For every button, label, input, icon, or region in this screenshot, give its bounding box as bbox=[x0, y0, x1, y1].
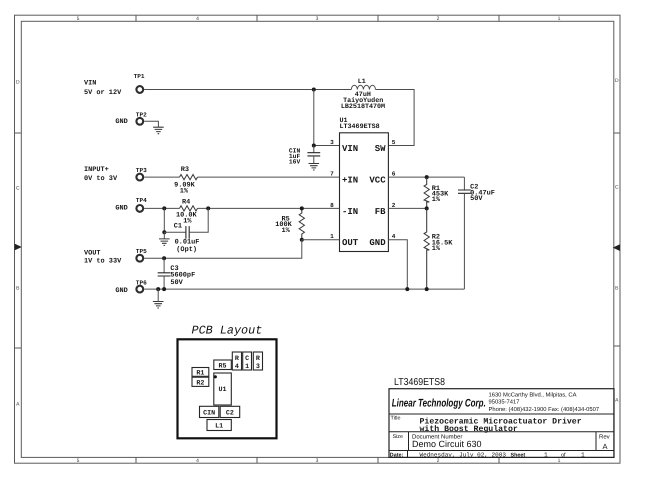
border row letters left bbox=[16, 80, 20, 408]
svg-text:1%: 1% bbox=[180, 187, 189, 195]
svg-text:R2: R2 bbox=[196, 380, 204, 388]
label VOUT bbox=[84, 249, 122, 265]
svg-text:R: R bbox=[235, 355, 239, 363]
title block title text bbox=[420, 417, 582, 434]
svg-text:4: 4 bbox=[235, 363, 239, 371]
svg-text:with Boost Regulator: with Boost Regulator bbox=[420, 425, 518, 434]
node FB junction bbox=[425, 206, 429, 210]
svg-text:1: 1 bbox=[245, 363, 249, 371]
wire GND rail bbox=[144, 288, 464, 290]
testpoint TP2 bbox=[136, 111, 147, 124]
svg-text:INPUT+: INPUT+ bbox=[84, 166, 109, 174]
resistor R4 bbox=[176, 198, 198, 225]
svg-text:GND: GND bbox=[369, 238, 386, 248]
svg-text:GND: GND bbox=[115, 118, 127, 126]
border mid arrow right bbox=[613, 244, 620, 251]
svg-text:0V to 3V: 0V to 3V bbox=[84, 175, 118, 183]
testpoint TP3 bbox=[136, 167, 147, 181]
svg-text:Linear Technology Corp.: Linear Technology Corp. bbox=[392, 397, 486, 409]
label INPUT+ bbox=[84, 166, 118, 183]
border column numbers bottom bbox=[77, 458, 561, 464]
svg-text:Demo Circuit 630: Demo Circuit 630 bbox=[412, 439, 482, 449]
node R5 top junction bbox=[300, 206, 304, 210]
svg-text:4: 4 bbox=[392, 233, 396, 240]
node C1 bottom junction bbox=[162, 230, 166, 234]
border mid arrow left bbox=[15, 244, 22, 251]
svg-text:1%: 1% bbox=[432, 245, 441, 253]
wire C1 branch left drop bbox=[163, 208, 165, 232]
svg-text:R3: R3 bbox=[181, 166, 189, 174]
node C3 bottom junction bbox=[162, 287, 166, 291]
svg-text:4: 4 bbox=[196, 16, 199, 22]
svg-text:LT3469ETS8: LT3469ETS8 bbox=[394, 377, 445, 388]
capacitor C2 bbox=[458, 177, 495, 289]
node VIN junction bbox=[312, 88, 316, 92]
ground CIN bbox=[309, 164, 320, 171]
wire TP4 to R4 bbox=[144, 207, 179, 209]
wire GND pin drop bbox=[388, 240, 407, 289]
svg-text:Wednesday, July 02, 2003: Wednesday, July 02, 2003 bbox=[420, 452, 507, 459]
svg-text:C: C bbox=[16, 186, 20, 192]
svg-text:D: D bbox=[16, 80, 20, 86]
svg-text:2: 2 bbox=[437, 458, 440, 464]
svg-text:GND: GND bbox=[115, 287, 127, 295]
svg-text:VIN: VIN bbox=[84, 79, 96, 87]
svg-text:Phone: (408)432-1900 Fax: (408: Phone: (408)432-1900 Fax: (408)434-0507 bbox=[489, 406, 600, 413]
node C1 left junction bbox=[162, 206, 166, 210]
svg-text:1: 1 bbox=[558, 458, 561, 464]
svg-text:CIN: CIN bbox=[203, 410, 215, 418]
wire OUT pin to VOUT rail bbox=[144, 240, 339, 258]
svg-text:1%: 1% bbox=[432, 196, 441, 204]
svg-text:1: 1 bbox=[544, 452, 548, 459]
svg-text:Sheet: Sheet bbox=[511, 452, 526, 458]
ground C1 bbox=[159, 239, 170, 246]
svg-text:SW: SW bbox=[375, 144, 386, 154]
svg-text:50V: 50V bbox=[170, 279, 183, 287]
wire R3 to pin 7 bbox=[198, 176, 340, 178]
svg-text:OUT: OUT bbox=[342, 238, 359, 248]
svg-text:3: 3 bbox=[316, 16, 319, 22]
wire TP2 to ground bbox=[144, 121, 158, 127]
PCB box R2 bbox=[192, 377, 209, 387]
svg-text:U1: U1 bbox=[218, 386, 226, 394]
svg-text:1: 1 bbox=[581, 452, 585, 459]
wire VIN junction down to pin 3 bbox=[314, 90, 340, 146]
svg-text:LB2518T470M: LB2518T470M bbox=[341, 103, 385, 111]
svg-text:1%: 1% bbox=[282, 227, 291, 235]
svg-text:3: 3 bbox=[256, 363, 260, 371]
svg-text:Rev: Rev bbox=[599, 434, 610, 441]
title block address bbox=[489, 392, 600, 414]
wire VCC rail bbox=[388, 176, 464, 178]
PCB box CIN bbox=[200, 406, 219, 417]
capacitor C3 bbox=[158, 258, 196, 289]
border ticks right bbox=[614, 133, 620, 346]
wire R4 to pin 8 bbox=[198, 207, 340, 209]
resistor R5 bbox=[275, 208, 304, 239]
svg-text:5V or 12V: 5V or 12V bbox=[84, 89, 122, 97]
PCB box R1 bbox=[192, 368, 209, 378]
wire L1 to SW pin bbox=[376, 90, 415, 146]
resistor R1 bbox=[424, 177, 449, 208]
node R5 bottom junction bbox=[300, 238, 304, 242]
node pin3 junction bbox=[312, 144, 316, 148]
svg-text:2: 2 bbox=[437, 16, 440, 22]
svg-text:R4: R4 bbox=[182, 198, 190, 206]
inductor L1 bbox=[341, 78, 385, 111]
PCB box C1 bbox=[243, 352, 252, 371]
border ticks bottom bbox=[136, 457, 499, 463]
svg-text:R: R bbox=[256, 355, 260, 363]
wire C1 junction to ground bbox=[163, 232, 165, 238]
svg-text:R5: R5 bbox=[218, 362, 226, 370]
wire VIN rail bbox=[144, 89, 351, 91]
border column numbers top bbox=[77, 16, 561, 22]
PCB box L1 bbox=[207, 420, 231, 431]
svg-text:+IN: +IN bbox=[342, 175, 358, 185]
svg-text:of: of bbox=[561, 452, 566, 458]
testpoint TP5 bbox=[136, 248, 147, 262]
ground TP6 bbox=[153, 302, 164, 309]
svg-text:C1: C1 bbox=[174, 222, 182, 230]
svg-text:C: C bbox=[245, 355, 249, 363]
svg-text:16V: 16V bbox=[289, 158, 301, 165]
svg-text:4: 4 bbox=[196, 458, 199, 464]
svg-text:L1: L1 bbox=[358, 78, 366, 86]
testpoint TP4 bbox=[136, 197, 147, 212]
node R1 top junction bbox=[425, 175, 429, 179]
testpoint TP1 bbox=[134, 73, 145, 93]
svg-text:1V to 33V: 1V to 33V bbox=[84, 258, 122, 266]
svg-text:D: D bbox=[615, 78, 619, 84]
svg-text:Date:: Date: bbox=[390, 452, 404, 458]
PCB box R5 bbox=[214, 360, 232, 370]
svg-text:7: 7 bbox=[330, 170, 334, 177]
node GND pin junction bbox=[405, 287, 409, 291]
border ticks top bbox=[136, 15, 499, 21]
svg-text:1: 1 bbox=[330, 233, 334, 240]
svg-text:3: 3 bbox=[316, 458, 319, 464]
svg-text:-IN: -IN bbox=[342, 207, 358, 217]
svg-text:5: 5 bbox=[77, 16, 80, 22]
svg-text:TP3: TP3 bbox=[136, 167, 147, 174]
svg-text:VIN: VIN bbox=[342, 144, 358, 154]
wire FB pin stub bbox=[388, 207, 426, 209]
title block sheet numbers bbox=[544, 452, 585, 459]
svg-text:VCC: VCC bbox=[369, 175, 386, 185]
PCB box C2 bbox=[220, 406, 240, 417]
svg-text:1: 1 bbox=[558, 16, 561, 22]
testpoint TP6 bbox=[136, 280, 147, 293]
ground TP2 bbox=[153, 127, 164, 134]
svg-text:C2: C2 bbox=[226, 410, 234, 418]
svg-text:Title: Title bbox=[391, 416, 401, 422]
svg-text:2: 2 bbox=[392, 202, 396, 209]
wire ground lead TP6 bbox=[157, 289, 159, 301]
op-amp U1 LT3469ETS8 bbox=[340, 117, 389, 252]
svg-text:GND: GND bbox=[115, 205, 127, 213]
svg-text:6: 6 bbox=[392, 170, 396, 177]
svg-text:8: 8 bbox=[330, 202, 334, 209]
node ground drop junction bbox=[156, 287, 160, 291]
wire TP3 to R3 bbox=[144, 176, 179, 178]
resistor R2 bbox=[424, 208, 453, 289]
svg-text:95035-7417: 95035-7417 bbox=[489, 399, 520, 406]
resistor R3 bbox=[174, 166, 197, 195]
svg-text:5: 5 bbox=[392, 139, 396, 146]
PCB layout outer box bbox=[178, 339, 277, 438]
svg-text:PCB Layout: PCB Layout bbox=[192, 324, 263, 338]
svg-text:TP1: TP1 bbox=[134, 73, 145, 80]
PCB box R4 bbox=[232, 352, 241, 371]
svg-text:(Opt): (Opt) bbox=[176, 246, 197, 254]
border ticks left bbox=[15, 133, 22, 348]
border row letters right bbox=[615, 78, 619, 404]
svg-text:VOUT: VOUT bbox=[84, 249, 101, 257]
svg-text:Size: Size bbox=[393, 434, 404, 440]
svg-text:50V: 50V bbox=[470, 195, 483, 203]
svg-text:3: 3 bbox=[330, 139, 334, 146]
title block frame bbox=[389, 389, 614, 458]
capacitor C1 bbox=[164, 208, 208, 254]
node C3 top junction bbox=[162, 256, 166, 260]
label VIN bbox=[84, 79, 122, 96]
svg-text:C: C bbox=[615, 185, 619, 191]
svg-text:LT3469ETS8: LT3469ETS8 bbox=[340, 123, 380, 131]
node R4 right junction bbox=[206, 206, 210, 210]
svg-text:1%: 1% bbox=[183, 218, 192, 226]
svg-text:1630 McCarthy Blvd., Milpitas,: 1630 McCarthy Blvd., Milpitas, CA bbox=[489, 392, 577, 399]
svg-text:TP4: TP4 bbox=[136, 197, 147, 204]
svg-text:TP5: TP5 bbox=[136, 248, 147, 255]
svg-text:L1: L1 bbox=[215, 423, 223, 431]
capacitor CIN bbox=[289, 146, 320, 166]
PCB box U1 bbox=[214, 373, 232, 405]
svg-text:FB: FB bbox=[375, 207, 386, 217]
node R2 bottom junction bbox=[425, 287, 429, 291]
svg-text:A: A bbox=[603, 442, 608, 451]
PCB box R3 bbox=[253, 352, 262, 371]
svg-text:5: 5 bbox=[77, 458, 80, 464]
svg-text:R1: R1 bbox=[196, 370, 204, 378]
